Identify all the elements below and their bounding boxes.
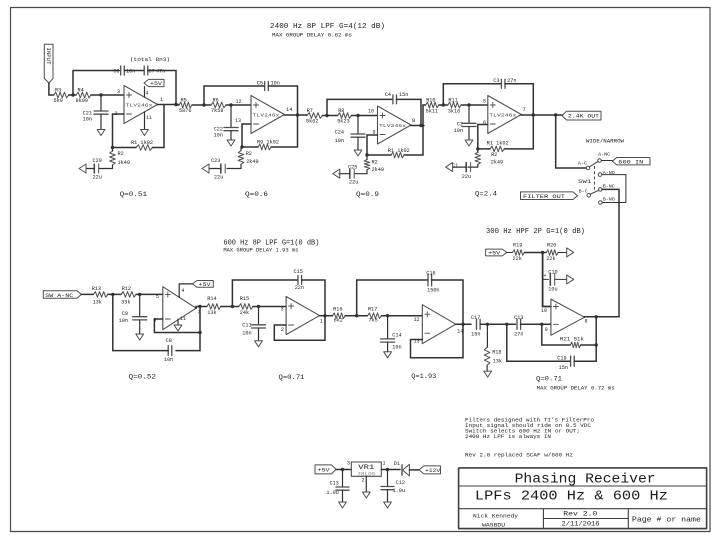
resistor R20 22k bias xyxy=(546,243,558,263)
svg-text:600 IN: 600 IN xyxy=(618,158,644,165)
AC ground arrow at C10 xyxy=(555,275,574,284)
+5V flag PSU output xyxy=(315,465,336,474)
label Q=0.71 HPF xyxy=(536,376,562,384)
svg-text:C14: C14 xyxy=(392,332,401,338)
svg-text:Phasing Receiver: Phasing Receiver xyxy=(515,472,656,487)
capacitor C25 22u electrolytic xyxy=(348,165,358,186)
AC ground arrow at C23 xyxy=(202,164,221,173)
capacitor C20 22u electrolytic xyxy=(93,158,102,181)
svg-text:24k: 24k xyxy=(240,310,249,316)
resistor R2 2k49 of U1B to AC ground xyxy=(468,149,503,167)
svg-text:5k62: 5k62 xyxy=(306,118,318,124)
svg-text:C16: C16 xyxy=(426,270,435,276)
svg-text:15n: 15n xyxy=(559,365,568,371)
svg-text:R16: R16 xyxy=(333,306,342,312)
note rev history xyxy=(465,453,573,459)
label Q=2.4 xyxy=(475,191,497,199)
op-amp U1A TLV246x xyxy=(115,86,158,124)
capacitor C21 10n to ground xyxy=(83,95,108,136)
wire +5V flag to VR1 pin 3 xyxy=(336,461,351,472)
svg-text:C11: C11 xyxy=(242,323,251,329)
svg-text:(total 8n3): (total 8n3) xyxy=(130,56,170,63)
svg-text:47n: 47n xyxy=(156,69,165,75)
svg-text:Rev 2.0: Rev 2.0 xyxy=(563,511,597,518)
INPUT flag xyxy=(44,44,53,83)
svg-text:13: 13 xyxy=(414,338,420,344)
wire op-amp U1A output pin 1 xyxy=(158,97,180,106)
wire R7 to R8, node A3 riser xyxy=(322,114,337,117)
svg-text:12: 12 xyxy=(414,317,420,323)
switch SW1 contact A-NC xyxy=(598,151,611,162)
wire R5 to R6, node A2 xyxy=(192,103,211,106)
wire C5 to stage2 output riser xyxy=(268,86,297,115)
wire B-NO joining A-NO bypass xyxy=(602,175,626,203)
wire U1C pin 9 down to feedback node xyxy=(367,130,378,156)
svg-text:10u: 10u xyxy=(548,287,557,293)
svg-text:22u: 22u xyxy=(349,179,358,185)
title block date 2/11/2016 xyxy=(562,520,600,527)
resistor R16 6k2 xyxy=(333,306,346,323)
wire C15 to output riser xyxy=(302,280,325,316)
svg-text:2.4K OUT: 2.4K OUT xyxy=(568,113,600,120)
capacitor C22 10n to ground xyxy=(214,105,238,146)
capacitor C12 1.0u PSU input cap xyxy=(381,470,405,509)
resistor R21 51k feedback xyxy=(560,337,584,348)
svg-text:C13: C13 xyxy=(514,315,523,321)
svg-text:TLV246x: TLV246x xyxy=(253,113,281,118)
op-amp U2B TLV246x xyxy=(163,287,196,330)
wire C4 to stage3 output riser xyxy=(397,99,422,125)
resistor R10 5k11 xyxy=(426,98,439,115)
svg-text:1: 1 xyxy=(320,318,323,324)
ground at U2B pin 11 xyxy=(174,316,186,331)
capacitor C10 10u bias bypass xyxy=(543,270,558,293)
svg-text:Rev 2.0 replaced SCAF w/600 Hz: Rev 2.0 replaced SCAF w/600 Hz xyxy=(465,453,573,459)
capacitor C15 22n feedback xyxy=(294,269,305,291)
svg-text:15n: 15n xyxy=(471,331,480,337)
svg-text:2k49: 2k49 xyxy=(246,159,258,165)
wire C13 to op-amp U2C pin 9 xyxy=(521,323,551,334)
wire U1D pin 13 down to feedback node xyxy=(235,118,251,147)
capacitor C14 10n to ground xyxy=(381,316,402,358)
AC ground arrow at C1 xyxy=(446,163,467,172)
switch SW1 pole A lever xyxy=(589,161,598,166)
svg-text:+5V: +5V xyxy=(318,468,331,474)
capacitor C17 15n highpass xyxy=(471,315,480,337)
wire R16 to R17 with riser junction xyxy=(345,314,367,317)
resistor R9 1k02 feedback of U1D xyxy=(257,140,279,150)
svg-text:+5V: +5V xyxy=(488,251,501,257)
svg-text:10n: 10n xyxy=(242,331,251,337)
heading: MAX GROUP DELAY 0.62 ms xyxy=(272,33,352,39)
label Q=0.6 xyxy=(245,191,268,199)
svg-text:C23: C23 xyxy=(211,158,220,164)
wire from INPUT flag to R3 xyxy=(49,83,54,95)
+5V flag for bias divider xyxy=(486,249,513,257)
wire bias junction down to U2C pin 10 xyxy=(541,253,551,315)
title block frame xyxy=(459,468,707,529)
svg-text:C2: C2 xyxy=(457,122,463,128)
label total 8n3 xyxy=(130,56,170,63)
svg-text:2: 2 xyxy=(281,327,284,333)
svg-text:10n: 10n xyxy=(83,117,92,123)
svg-text:LPFs 2400 Hz & 600 Hz: LPFs 2400 Hz & 600 Hz xyxy=(475,489,668,505)
feedback wire node A2 up to C5 xyxy=(204,86,264,105)
svg-text:15n: 15n xyxy=(399,92,408,98)
svg-text:TLV246x: TLV246x xyxy=(489,113,517,118)
svg-text:22u: 22u xyxy=(462,174,471,180)
svg-text:D1: D1 xyxy=(394,461,400,467)
svg-text:1: 1 xyxy=(160,97,163,103)
svg-text:1.0u: 1.0u xyxy=(393,488,405,494)
ground at U1A pin 11 xyxy=(141,112,152,136)
svg-text:C25: C25 xyxy=(348,165,357,171)
svg-text:B-NO: B-NO xyxy=(603,196,615,202)
svg-text:+5V: +5V xyxy=(199,282,212,288)
label MAX GROUP DELAY 0.72 ms xyxy=(537,385,615,391)
svg-text:7k58: 7k58 xyxy=(211,108,223,114)
svg-text:R4: R4 xyxy=(78,88,84,94)
resistor R6 7k58 xyxy=(211,98,226,115)
svg-text:C17: C17 xyxy=(471,315,480,321)
capacitor C23 22u electrolytic xyxy=(211,158,225,181)
svg-text:10n: 10n xyxy=(335,138,344,144)
capacitor C16 150n feedback xyxy=(426,270,439,293)
svg-text:R10: R10 xyxy=(426,98,435,104)
svg-text:WIDE/NARROW: WIDE/NARROW xyxy=(586,138,625,145)
svg-text:R17: R17 xyxy=(368,306,377,312)
ground at VR1 pin 2 xyxy=(361,476,370,498)
svg-text:22k: 22k xyxy=(513,256,522,262)
svg-text:MAX GROUP DELAY 0.62 ms: MAX GROUP DELAY 0.62 ms xyxy=(272,33,352,39)
feedback wire node A4 up to C3 xyxy=(443,84,501,105)
capacitor C8 10n feedback xyxy=(164,338,173,363)
heading: 2400 Hz 8P LPF G=4(12 dB) xyxy=(270,23,385,31)
heading: MAX GROUP DELAY 1.93 ms xyxy=(223,247,298,253)
capacitor C6 10n (series feedback) xyxy=(113,66,135,75)
svg-text:Q=1.93: Q=1.93 xyxy=(411,373,436,381)
wire C6 to C7 xyxy=(124,70,144,72)
svg-text:R1 1k02: R1 1k02 xyxy=(131,140,153,146)
svg-text:13: 13 xyxy=(235,118,241,124)
wire R3 to R4 with node A1 junction xyxy=(69,93,76,96)
svg-text:6k2: 6k2 xyxy=(334,318,343,324)
svg-text:R2: R2 xyxy=(491,152,497,158)
svg-text:11: 11 xyxy=(146,115,152,121)
svg-text:R7: R7 xyxy=(307,108,313,114)
op-amp U2A TLV246x xyxy=(286,297,320,335)
capacitor C7 47n (series feedback) xyxy=(144,66,165,75)
svg-text:1: 1 xyxy=(383,461,386,467)
wire U2C output pin 8 to switch B-NC net xyxy=(585,315,620,324)
op-amp U2D TLV246x xyxy=(422,305,456,344)
resistor R1 1k02 feedback of U1A xyxy=(131,140,153,150)
svg-text:R19: R19 xyxy=(513,243,522,249)
svg-text:2400 Hz 8P LPF G=4(12 dB): 2400 Hz 8P LPF G=4(12 dB) xyxy=(270,23,385,31)
wire R12 to op-amp U2B pin 5 xyxy=(136,293,163,300)
diode D1 xyxy=(394,461,410,476)
wire U2D output pin 14 xyxy=(456,323,471,335)
wire C7 to output node of stage 1 xyxy=(148,71,176,105)
resistor R8 5k23 xyxy=(337,108,351,125)
svg-text:9k09: 9k09 xyxy=(76,98,88,104)
wire 2.4K OUT node down to switch A common xyxy=(556,115,587,168)
svg-text:13k: 13k xyxy=(493,358,502,364)
svg-text:TLV246x: TLV246x xyxy=(126,103,154,108)
svg-text:5k23: 5k23 xyxy=(337,118,349,124)
AC ground arrow at C25 xyxy=(333,169,350,178)
capacitor C3 27n feedback xyxy=(493,78,516,88)
capacitor C19 15n feedback xyxy=(507,324,596,371)
wire U2A pin 2 feedback loop to output xyxy=(274,316,325,341)
svg-text:10n: 10n xyxy=(214,133,223,139)
feedback wire node A1 up to series cap chain xyxy=(73,71,119,96)
svg-text:10: 10 xyxy=(368,109,374,115)
svg-text:SW1: SW1 xyxy=(578,178,592,185)
wire R19 to R20 bias junction xyxy=(524,251,546,254)
capacitor C2 10n to ground xyxy=(454,105,476,146)
wire A-NO to bypass net xyxy=(602,174,626,176)
op-amp U2C TLV246x xyxy=(551,299,585,335)
svg-text:Q=2.4: Q=2.4 xyxy=(475,191,497,199)
svg-text:R2: R2 xyxy=(246,151,252,157)
svg-text:R2: R2 xyxy=(118,151,124,157)
switch SW1 contact B-NO xyxy=(599,196,615,204)
resistor R4 9k09 xyxy=(76,88,92,105)
wire U1B output pin 7 to 2.4K OUT xyxy=(521,107,562,117)
wire R13 to R12 with C8 feedback junction xyxy=(108,293,121,296)
svg-text:13k: 13k xyxy=(93,300,102,306)
label Q=0.52 xyxy=(129,374,157,382)
svg-text:10n: 10n xyxy=(164,357,173,363)
resistor R5 5876 xyxy=(179,98,192,115)
svg-text:R1 1k02: R1 1k02 xyxy=(388,148,410,154)
svg-text:5876: 5876 xyxy=(179,108,191,114)
svg-text:3: 3 xyxy=(281,307,284,313)
wire R6 to op-amp U1D pin 12, node B2 xyxy=(226,99,251,107)
title block author Nick Kennedy xyxy=(473,512,519,528)
svg-text:6: 6 xyxy=(153,317,156,323)
svg-text:3k16: 3k16 xyxy=(448,109,460,115)
svg-text:FILTER OUT: FILTER OUT xyxy=(523,193,566,200)
switch SW1 pole B common contact B-C xyxy=(579,189,591,197)
svg-text:22u: 22u xyxy=(214,175,223,181)
svg-text:C3: C3 xyxy=(493,78,499,84)
wire U1A pin 2 down to feedback node xyxy=(113,114,125,148)
svg-text:4: 4 xyxy=(181,288,184,294)
resistor R14 13k xyxy=(207,296,221,316)
op-amp U1D TLV246x xyxy=(251,96,285,134)
svg-text:10n: 10n xyxy=(392,345,401,351)
capacitor C4 15n feedback xyxy=(385,92,409,104)
svg-text:+5V: +5V xyxy=(150,81,163,87)
svg-text:3: 3 xyxy=(347,461,350,467)
feedback wire up to C15 xyxy=(232,280,298,307)
wire C3 to stage4 output riser xyxy=(505,84,533,115)
svg-text:10n: 10n xyxy=(119,318,128,324)
title text Phasing Receiver xyxy=(515,472,656,487)
svg-text:MAX GROUP DELAY 0.72 ms: MAX GROUP DELAY 0.72 ms xyxy=(537,385,615,391)
resistor R11 3k16 xyxy=(448,98,461,115)
FILTER OUT flag xyxy=(521,192,578,200)
switch SW1 contact B-NC xyxy=(599,183,615,191)
svg-text:C4: C4 xyxy=(385,92,391,98)
svg-text:27n: 27n xyxy=(514,331,523,337)
wire C17 to C13 with R18 junction xyxy=(480,323,515,326)
wire R11 to op-amp U1B pin 5, node B4 xyxy=(461,99,488,107)
svg-text:C9: C9 xyxy=(122,311,128,317)
svg-text:R15: R15 xyxy=(240,296,249,302)
capacitor C9 10n to ground xyxy=(119,294,147,340)
+5V flag at U1A pin 4 xyxy=(144,79,164,97)
svg-text:A-C: A-C xyxy=(578,160,587,166)
svg-text:R9 1k02: R9 1k02 xyxy=(257,140,279,146)
label Q=0.71 xyxy=(279,374,305,382)
title block Page # or name xyxy=(632,517,701,525)
wire R1 to output riser stage4 xyxy=(476,115,533,151)
wire C16 to output riser xyxy=(432,280,463,324)
voltage regulator VR1 78L05 xyxy=(351,462,381,477)
svg-text:Q=0.71: Q=0.71 xyxy=(536,376,562,384)
svg-text:C24: C24 xyxy=(335,129,344,135)
svg-text:Nick Kennedy: Nick Kennedy xyxy=(473,512,519,519)
wire U1C output pin 8 xyxy=(411,118,424,127)
wire R21 to output riser xyxy=(581,317,598,347)
resistor R12 33k xyxy=(121,286,136,306)
svg-text:3: 3 xyxy=(117,89,120,95)
wire flag to R13 xyxy=(81,293,93,295)
wire R14 to R15 with node A riser xyxy=(221,305,239,308)
svg-text:Q=0.51: Q=0.51 xyxy=(120,191,148,199)
svg-text:7: 7 xyxy=(523,107,526,113)
heading: 600 Hz 8P LPF G=1(0 dB) xyxy=(223,240,319,248)
op-amp U1B TLV246x xyxy=(488,96,522,134)
svg-text:Page # or name: Page # or name xyxy=(632,517,701,525)
svg-text:C8: C8 xyxy=(166,338,172,344)
label Q=0.9 xyxy=(356,191,379,199)
svg-text:C19: C19 xyxy=(557,356,566,362)
svg-text:Q=0.6: Q=0.6 xyxy=(245,191,268,199)
svg-text:5k11: 5k11 xyxy=(426,109,438,115)
wire R1 to output riser xyxy=(111,105,164,150)
capacitor C1 22u electrolytic xyxy=(452,163,471,180)
resistor R2 2k49 of U1D to AC ground xyxy=(227,147,259,169)
notes text block xyxy=(465,418,594,441)
AC ground arrow at R20 xyxy=(558,248,574,257)
svg-text:R8: R8 xyxy=(338,108,344,114)
svg-text:9: 9 xyxy=(372,130,375,136)
svg-text:10n: 10n xyxy=(126,69,135,75)
wire U2A output pin 1 xyxy=(320,314,333,324)
svg-text:MAX GROUP DELAY 1.93 ms: MAX GROUP DELAY 1.93 ms xyxy=(223,247,298,253)
wire output down to C8 feedback xyxy=(176,307,202,351)
wire U1D output pin 14 xyxy=(285,107,308,117)
resistor R1 1k02 feedback of U1B xyxy=(487,141,509,152)
svg-text:5k9: 5k9 xyxy=(54,98,63,104)
svg-text:R18: R18 xyxy=(492,350,501,356)
feedback wire node A3 up to C4 xyxy=(327,99,393,115)
svg-text:22k: 22k xyxy=(546,256,555,262)
svg-text:300 Hz HPF 2P G=1(0 dB): 300 Hz HPF 2P G=1(0 dB) xyxy=(486,228,585,236)
wire R10 to R11, node A4 xyxy=(439,103,448,106)
svg-text:C20: C20 xyxy=(93,158,102,164)
svg-text:1.0u: 1.0u xyxy=(326,490,338,496)
resistor R7 5k62 xyxy=(306,108,322,125)
svg-text:2: 2 xyxy=(361,477,364,483)
label WIDE/NARROW xyxy=(586,138,625,145)
svg-text:14: 14 xyxy=(286,107,292,113)
wire B-NC to 600 Hz filter output (long vertical) xyxy=(602,189,619,316)
resistor R13 13k xyxy=(92,286,108,306)
svg-text:5: 5 xyxy=(156,294,159,300)
svg-text:+: + xyxy=(544,273,547,279)
svg-text:6: 6 xyxy=(483,120,486,126)
wire U2D pin 13 feedback loop to output xyxy=(411,324,464,357)
wire A-NC to 600 IN flag xyxy=(601,160,612,162)
capacitor C13 1.0u PSU output cap xyxy=(326,470,349,509)
feedback wire up to C16 xyxy=(357,280,428,316)
svg-text:B-C: B-C xyxy=(579,189,588,195)
svg-text:R13: R13 xyxy=(92,286,101,292)
resistor R15 24k xyxy=(239,296,253,316)
wire down to R21 feedback xyxy=(542,324,571,345)
svg-text:WA5BDU: WA5BDU xyxy=(482,521,506,528)
resistor R18 13k to ground xyxy=(484,324,502,377)
+5V flag at U2B pin 4 xyxy=(179,281,213,298)
switch SW1 contact A-NO xyxy=(598,170,615,176)
svg-text:SW A-NC: SW A-NC xyxy=(45,292,74,299)
svg-text:A-NC: A-NC xyxy=(598,151,610,157)
svg-text:12: 12 xyxy=(235,99,241,105)
capacitor C11 10n to ground xyxy=(242,307,265,347)
svg-text:4: 4 xyxy=(146,91,149,97)
svg-text:150n: 150n xyxy=(427,288,439,294)
svg-text:C6: C6 xyxy=(113,69,119,75)
svg-text:Q=0.71: Q=0.71 xyxy=(279,374,305,382)
svg-text:R11: R11 xyxy=(448,98,457,104)
wire R4 to op-amp pin 3 with node B1 junction xyxy=(91,89,124,97)
svg-text:R5: R5 xyxy=(181,98,187,104)
resistor R19 22k bias xyxy=(513,243,525,263)
svg-text:R2: R2 xyxy=(372,160,378,166)
wire stage1 output to R5 xyxy=(176,104,179,107)
svg-text:R3: R3 xyxy=(55,88,61,94)
wire C8 back to input junction xyxy=(113,294,168,350)
resistor R2 2k49 of U1C to AC ground xyxy=(355,155,384,174)
svg-text:R12: R12 xyxy=(122,286,131,292)
wire R9 to output riser xyxy=(240,115,297,149)
wire R15 to op-amp U2A pin 3 xyxy=(253,305,286,313)
svg-text:600 Hz 8P LPF G=1(0 dB): 600 Hz 8P LPF G=1(0 dB) xyxy=(223,240,319,248)
capacitor C13 27n highpass xyxy=(514,315,523,337)
svg-text:22n: 22n xyxy=(295,285,304,291)
capacitor C24 10n to ground xyxy=(335,116,365,157)
svg-text:R1 1k02: R1 1k02 xyxy=(487,141,509,147)
svg-text:C7: C7 xyxy=(149,69,155,75)
svg-text:10n: 10n xyxy=(454,128,463,134)
wire VR1 pin 1 to D1 xyxy=(381,461,400,472)
svg-text:TLV246x: TLV246x xyxy=(379,124,407,129)
svg-text:B-NC: B-NC xyxy=(603,183,615,189)
capacitor C5 10n feedback xyxy=(257,81,280,91)
svg-text:22u: 22u xyxy=(93,175,102,181)
wire stage3 output rises to stage4 input xyxy=(423,105,426,126)
svg-text:R21 51k: R21 51k xyxy=(560,337,584,343)
svg-text:Q=0.52: Q=0.52 xyxy=(129,374,157,382)
svg-text:33k: 33k xyxy=(121,300,130,306)
svg-text:1k49: 1k49 xyxy=(118,160,130,166)
switch SW1 pole A common contact A-C xyxy=(578,160,590,170)
